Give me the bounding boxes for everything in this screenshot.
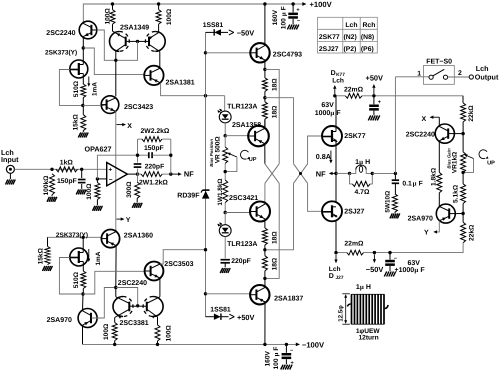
wire 2240b collector: [438, 117, 440, 126]
wire opamp minus: [97, 178, 106, 180]
svg-text:2SJ27: 2SJ27: [344, 208, 364, 215]
svg-text:100: 100: [273, 358, 280, 369]
wire fb right vert: [170, 139, 172, 174]
wire 3503 emitter: [159, 278, 161, 279]
label UP right arc: [479, 150, 487, 159]
wire x2 right top K77 gate: [308, 136, 323, 164]
jfet Q8 2SK373 bottom: [70, 248, 88, 266]
wire pairR collector: [159, 279, 161, 297]
svg-text:Bias Gain: Bias Gain: [446, 148, 451, 169]
wire node B down to Q5 collector: [115, 60, 117, 96]
svg-text:2SA970: 2SA970: [47, 317, 72, 324]
wire out node row: [336, 172, 349, 174]
node dot j27 drain: [334, 251, 337, 254]
svg-text:2SA970: 2SA970: [408, 215, 433, 222]
transistor Q2 2SA1349 left: [110, 32, 120, 52]
svg-text:300Ω: 300Ω: [126, 181, 133, 198]
wire jfet2 gate loop: [59, 258, 81, 295]
node dot 18cd: [263, 248, 266, 251]
svg-text:2SC2240: 2SC2240: [406, 131, 435, 138]
svg-text:12turn: 12turn: [359, 335, 379, 342]
svg-text:2SA1349: 2SA1349: [120, 24, 149, 31]
svg-text:1SS81: 1SS81: [210, 306, 231, 313]
svg-text:H: H: [366, 284, 371, 291]
transistor Q5 2SC3423: [101, 96, 119, 114]
wire 1358 emitter: [264, 144, 266, 164]
label current 1mA arrow: [88, 77, 90, 85]
svg-text:VR1kΩ: VR1kΩ: [452, 152, 459, 173]
wire 1837 collector: [264, 278, 266, 287]
transistor Q14 2SA1358: [248, 126, 269, 147]
node dot fb b: [169, 154, 172, 157]
svg-text:63V: 63V: [321, 102, 334, 109]
svg-text:18Ω: 18Ω: [272, 231, 279, 244]
capacitor 150pF input: [81, 169, 83, 178]
resistor 5.1k right: [461, 184, 466, 204]
svg-text:22mΩ: 22mΩ: [344, 87, 364, 94]
svg-text:2SK77: 2SK77: [344, 133, 366, 140]
svg-text:0.1: 0.1: [402, 180, 412, 187]
vr VR1k right: [461, 152, 466, 173]
svg-text:+1000: +1000: [395, 267, 415, 274]
wire k77 source: [335, 141, 337, 174]
svg-text:+50V: +50V: [237, 313, 255, 322]
svg-text:18Ω: 18Ω: [272, 257, 279, 270]
node dot NF out: [334, 172, 337, 175]
connector Lch output: [469, 75, 473, 79]
svg-text:100: 100: [280, 18, 287, 29]
resistor 15k top: [81, 115, 86, 131]
svg-text:1SS81: 1SS81: [203, 22, 224, 29]
svg-text:2SC2240: 2SC2240: [118, 280, 147, 287]
svg-text:D: D: [331, 70, 336, 77]
svg-text:510Ω: 510Ω: [73, 80, 80, 97]
svg-text:100Ω: 100Ω: [166, 324, 173, 341]
wire x1 right bottom: [266, 183, 279, 278]
node dot sw: [394, 172, 397, 175]
resistor 2W2.2k: [138, 138, 143, 140]
wire pairL collector: [115, 288, 117, 297]
node dot B: [114, 59, 117, 62]
svg-text:4.7Ω: 4.7Ω: [355, 189, 370, 196]
node DJ27 terminal: [335, 255, 337, 261]
svg-text:Output: Output: [475, 73, 499, 82]
transistor Q19 2SC2240 right: [435, 124, 454, 143]
transistor Q12 2SC3503: [145, 262, 164, 281]
wire sw node up: [394, 77, 396, 174]
resistor 100k input: [50, 174, 55, 195]
wire opamp out: [127, 173, 137, 175]
wire 3503 collector: [160, 250, 204, 264]
svg-text:−: −: [109, 177, 113, 184]
wire 970 emitter: [82, 325, 84, 344]
wire 1360 base row: [48, 236, 102, 238]
resistor 22k top: [461, 103, 466, 122]
svg-text:−: −: [297, 18, 300, 24]
svg-text:TLR123A: TLR123A: [227, 241, 257, 248]
wire 970b collector: [438, 205, 440, 208]
svg-text:Rch: Rch: [363, 22, 376, 29]
node dot minus: [96, 177, 99, 180]
wire node E to pair bases: [116, 288, 138, 305]
wire minus up to fb row: [96, 155, 98, 179]
svg-text:−50V: −50V: [366, 265, 384, 274]
svg-text:1W1.8kΩ: 1W1.8kΩ: [217, 178, 224, 205]
svg-text:(N2): (N2): [344, 34, 357, 41]
wire led2 rail: [224, 213, 226, 225]
transistor Q11 2SC3381 right: [153, 297, 163, 317]
node dot R1 top: [111, 2, 114, 5]
crossing X1: [265, 164, 279, 184]
node dot railL 100b: [156, 343, 159, 346]
resistor 1k input: [56, 167, 78, 172]
vr VR500: [224, 136, 226, 147]
ground input jack: [9, 173, 11, 179]
svg-text:1.8kΩ: 1.8kΩ: [430, 167, 437, 186]
svg-text:150pF: 150pF: [57, 178, 77, 185]
svg-text:2W2.2kΩ: 2W2.2kΩ: [141, 128, 170, 135]
wire x1 left bottom: [264, 183, 266, 203]
wire 1381 collector to mid: [161, 83, 225, 96]
node dot -50V: [373, 251, 376, 254]
svg-text:NF: NF: [316, 169, 326, 178]
svg-text:22kΩ: 22kΩ: [468, 105, 475, 122]
wire tlr rail top: [224, 96, 226, 112]
resistor 100ohm opamp: [95, 183, 100, 200]
svg-text:510Ω: 510Ω: [73, 271, 80, 288]
capacitor 0.1uF: [394, 173, 396, 179]
node dot NF left: [169, 172, 172, 175]
node dot rail 3503c: [204, 248, 207, 251]
svg-text:2SA1381: 2SA1381: [166, 80, 195, 87]
node +50V arrow: [373, 87, 375, 95]
resistor 15k bottom: [47, 237, 49, 246]
wire right rail top: [462, 96, 464, 103]
svg-text:NF: NF: [184, 170, 194, 179]
svg-text:Y: Y: [424, 230, 429, 237]
wire led1 to base node: [224, 123, 226, 136]
wire 4793 emitter: [264, 60, 266, 69]
node dot railL 100a: [113, 343, 116, 346]
svg-text:μ: μ: [360, 284, 364, 291]
node dot D: [81, 292, 84, 295]
table output device list: [318, 17, 378, 53]
wire led2 to cap: [224, 237, 226, 259]
svg-text:F: F: [419, 180, 423, 187]
svg-text:−100V: −100V: [302, 341, 325, 350]
svg-text:J27: J27: [336, 275, 344, 281]
svg-text:F: F: [336, 110, 341, 117]
svg-text:15kΩ: 15kΩ: [72, 113, 79, 130]
svg-text:Lch: Lch: [332, 77, 344, 84]
svg-text:FET−S0: FET−S0: [426, 58, 452, 65]
resistor 1W1.8k: [223, 180, 228, 203]
node dot pair2 bases: [136, 304, 139, 307]
svg-text:Y: Y: [126, 217, 131, 224]
svg-text:5.1kΩ: 5.1kΩ: [452, 184, 459, 203]
transistor Q17 2SK77 sit: [322, 126, 342, 146]
resistor 22mohm bottom: [347, 250, 364, 255]
transistor Q9 2SA970: [78, 309, 97, 328]
op-amp U1 OPA627: [107, 163, 128, 186]
svg-text:100Ω: 100Ω: [104, 7, 111, 24]
svg-text:μ: μ: [280, 12, 287, 16]
svg-text:0.8A: 0.8A: [316, 152, 331, 161]
svg-text:18Ω: 18Ω: [272, 105, 279, 118]
wire 1360 collector: [115, 230, 117, 232]
svg-text:−50V: −50V: [237, 28, 255, 37]
wire node D to 3503 base: [83, 271, 145, 294]
svg-text:220pF: 220pF: [231, 258, 251, 265]
wire 1349L collector: [115, 51, 117, 60]
svg-text:Bias Position: Bias Position: [209, 139, 214, 167]
node dot 1358 base: [224, 134, 227, 137]
wire +50V row: [335, 95, 346, 97]
svg-text:2SA1358: 2SA1358: [232, 122, 261, 129]
wire Q1 emitter to node: [82, 36, 84, 48]
node dot cap63 bot: [388, 251, 391, 254]
resistor 510ohm top: [81, 84, 86, 98]
svg-text:1mA: 1mA: [95, 251, 102, 265]
wire 4793 collector: [264, 4, 266, 46]
node dot 4793 rail: [263, 2, 266, 5]
wire 1360 emitter down: [115, 246, 117, 288]
node dot A: [82, 46, 85, 49]
wire pair base down: [116, 41, 138, 60]
wire pairR emitter: [157, 317, 159, 325]
svg-text:F: F: [273, 347, 280, 351]
label UP top arc: [240, 150, 248, 159]
resistor 22k bottom right: [461, 222, 466, 243]
resistor 5W10: [392, 194, 397, 212]
svg-text:D: D: [329, 273, 334, 280]
ground 15k top: [78, 133, 81, 138]
svg-text:160V: 160V: [272, 9, 279, 25]
svg-text:12.5φ: 12.5φ: [337, 305, 344, 322]
resistor 100ohm R1: [110, 10, 115, 25]
wire node D to 970 collector: [82, 294, 85, 311]
wire 2240b emitter: [438, 141, 440, 173]
svg-text:100Ω: 100Ω: [166, 8, 173, 25]
svg-text:Input: Input: [1, 155, 19, 164]
resistor 2W1.2k: [138, 173, 142, 175]
node dot +50V: [372, 94, 375, 97]
wire +100V rail top: [83, 4, 296, 22]
svg-text:100Ω: 100Ω: [86, 183, 93, 200]
svg-text:(P2): (P2): [344, 46, 357, 53]
svg-text:160V: 160V: [265, 350, 272, 366]
resistor 18ohm B: [262, 102, 267, 119]
resistor 300ohm: [137, 174, 139, 182]
diode D3 1SS81 bottom: [206, 316, 214, 318]
node dot R2 top: [157, 2, 160, 5]
svg-text:1000: 1000: [315, 110, 331, 117]
svg-text:Lch: Lch: [345, 22, 357, 29]
wire 3421 base: [225, 212, 250, 214]
wire 1837 emitter: [264, 302, 266, 344]
svg-text:UP: UP: [249, 157, 257, 163]
wire 1.8k to 970c: [438, 193, 440, 206]
wire j27 bottom: [335, 220, 337, 253]
wire 1349R collector to 1381 emitter: [159, 52, 161, 67]
diode D1 1SS81 top: [206, 31, 214, 33]
wire -100V rail: [83, 343, 297, 345]
node NF left arrow: [171, 173, 179, 175]
ground 150pF input: [76, 189, 79, 194]
capacitor 160V 100uF bottom: [285, 344, 287, 352]
wire XY rail: [115, 111, 117, 230]
wire pairL emitter: [114, 318, 116, 323]
node Dk77 terminal: [334, 88, 336, 95]
capacitor 63V 1000u bottom: [389, 253, 391, 260]
capacitor 220pF low: [221, 259, 230, 261]
resistor 100ohm pairR: [155, 325, 160, 341]
resistor 100ohm pairL: [112, 323, 117, 341]
transistor Q13 2SC4793: [250, 43, 269, 62]
svg-text:+100V: +100V: [310, 0, 333, 9]
wire Q1 collector: [82, 22, 84, 24]
resistor 510ohm bottom: [81, 271, 86, 289]
connector Lch input jack: [6, 165, 14, 173]
svg-text:63V: 63V: [408, 260, 421, 267]
node dot fb a: [136, 154, 139, 157]
ground 300ohm: [132, 203, 135, 208]
wire 1837 base: [206, 293, 251, 295]
svg-text:22mΩ: 22mΩ: [344, 240, 364, 247]
transistor Q20 2SA970 right: [436, 204, 455, 223]
svg-text:μ: μ: [359, 159, 363, 166]
resistor 1.8k right: [437, 172, 442, 192]
node dot 18ab: [263, 96, 266, 99]
svg-text:UP: UP: [487, 160, 495, 166]
node +100V arrow: [302, 2, 306, 6]
capacitor 220pF fb: [137, 139, 139, 162]
node dot k77 drain: [333, 94, 336, 97]
node dot 2240b base: [461, 132, 464, 135]
svg-text:+50V: +50V: [366, 74, 384, 83]
node dot L right: [371, 172, 374, 175]
ground 100k: [47, 197, 49, 202]
transistor Q18 2SJ27 sit: [322, 201, 342, 221]
svg-text:+: +: [296, 7, 299, 13]
svg-text:Lch: Lch: [476, 64, 489, 73]
wire x2 right bottom J27 gate: [308, 183, 323, 211]
svg-text:Lch: Lch: [329, 266, 341, 273]
svg-text:22kΩ: 22kΩ: [468, 224, 475, 241]
svg-text:TLR123A: TLR123A: [227, 104, 257, 111]
inductor 1uH zobel: [350, 170, 356, 174]
svg-text:2: 2: [458, 70, 462, 77]
label 1mA arrow bottom: [88, 249, 90, 260]
svg-text:100kΩ: 100kΩ: [43, 175, 50, 196]
svg-text:(N8): (N8): [361, 34, 374, 41]
svg-text:(P6): (P6): [361, 46, 374, 53]
node dot cap100u: [291, 2, 294, 5]
wire 4793 base: [206, 52, 251, 54]
transistor Q3 2SA1349 right: [155, 32, 165, 52]
wire rail bias: [205, 32, 207, 316]
wire jfet gate loop: [59, 70, 81, 106]
svg-text:1: 1: [417, 70, 421, 77]
svg-text:X: X: [422, 116, 427, 123]
resistor 100ohm R2: [156, 10, 161, 25]
node dot out: [136, 172, 139, 175]
node X arrow: [117, 124, 124, 126]
svg-text:2SA1360: 2SA1360: [124, 232, 153, 239]
wire x2 left bottom: [266, 183, 294, 250]
wire jfet2 source: [82, 262, 84, 272]
led TLR123A bottom: [219, 225, 231, 237]
wire out to sw node: [372, 172, 395, 174]
svg-text:15kΩ: 15kΩ: [38, 247, 45, 264]
wire 1358 base: [225, 135, 248, 137]
svg-text:2SK373(Y): 2SK373(Y): [45, 50, 77, 57]
capacitor 63V 1000u top: [373, 96, 375, 105]
svg-text:18Ω: 18Ω: [272, 78, 279, 91]
svg-text:2SA1837: 2SA1837: [274, 296, 303, 303]
node dot rail 1837e: [263, 343, 266, 346]
node dot E: [114, 286, 117, 289]
wire sit mid: [335, 173, 337, 202]
wire input line: [14, 168, 106, 170]
node dot e4793: [263, 68, 266, 71]
resistor 18ohm A: [262, 78, 267, 92]
transistor Q7 2SA1360: [101, 230, 119, 248]
svg-text:F: F: [420, 267, 425, 274]
svg-text:2SC3503: 2SC3503: [164, 261, 193, 268]
crossing X2: [294, 164, 308, 184]
svg-text:+: +: [108, 167, 112, 174]
wire x1 right top: [265, 69, 279, 163]
svg-text:2SC2240: 2SC2240: [46, 30, 75, 37]
wire 970 base run: [91, 288, 114, 319]
svg-text:2W1.2kΩ: 2W1.2kΩ: [139, 179, 168, 186]
wire 2240b base link: [454, 133, 463, 135]
svg-text:2SC3421: 2SC3421: [229, 195, 258, 202]
svg-text:5W10Ω: 5W10Ω: [384, 191, 391, 213]
transistor Q1 2SC2240: [79, 21, 97, 39]
wire Q5 base from bias node: [83, 104, 101, 106]
svg-text:H: H: [365, 159, 370, 166]
node dot jfet2 drain: [82, 236, 85, 239]
node dot pair bases: [136, 40, 139, 43]
resistor 18ohm C: [262, 228, 267, 245]
svg-text:2SC4793: 2SC4793: [273, 51, 302, 58]
svg-text:X: X: [127, 123, 132, 130]
node dot 18d bottom: [263, 277, 266, 280]
svg-text:2SK77: 2SK77: [319, 34, 340, 41]
wire 3421 emitter: [264, 219, 266, 228]
ground 220pF low: [220, 268, 223, 273]
svg-text:F: F: [280, 6, 287, 10]
svg-text:100Ω: 100Ω: [103, 323, 110, 340]
svg-text:μ: μ: [413, 180, 417, 187]
svg-text:2SJ27: 2SJ27: [319, 46, 339, 53]
resistor 4.7ohm: [350, 173, 353, 184]
node -50V arrow: [373, 255, 375, 261]
ground 100ohm opamp: [93, 206, 95, 211]
resistor 22mohm top: [345, 93, 362, 98]
svg-text:1mA: 1mA: [92, 82, 99, 96]
svg-text:μ: μ: [330, 110, 334, 117]
transistor Q10 2SC3381 left: [113, 297, 123, 317]
wire x2 left top: [265, 98, 294, 164]
svg-text:2SC3423: 2SC3423: [124, 104, 153, 111]
resistor 18ohm D: [262, 256, 267, 271]
wire node A to 1381 base: [83, 48, 144, 75]
wire 1358 collector: [264, 119, 266, 128]
svg-text:RD39F: RD39F: [177, 192, 200, 199]
